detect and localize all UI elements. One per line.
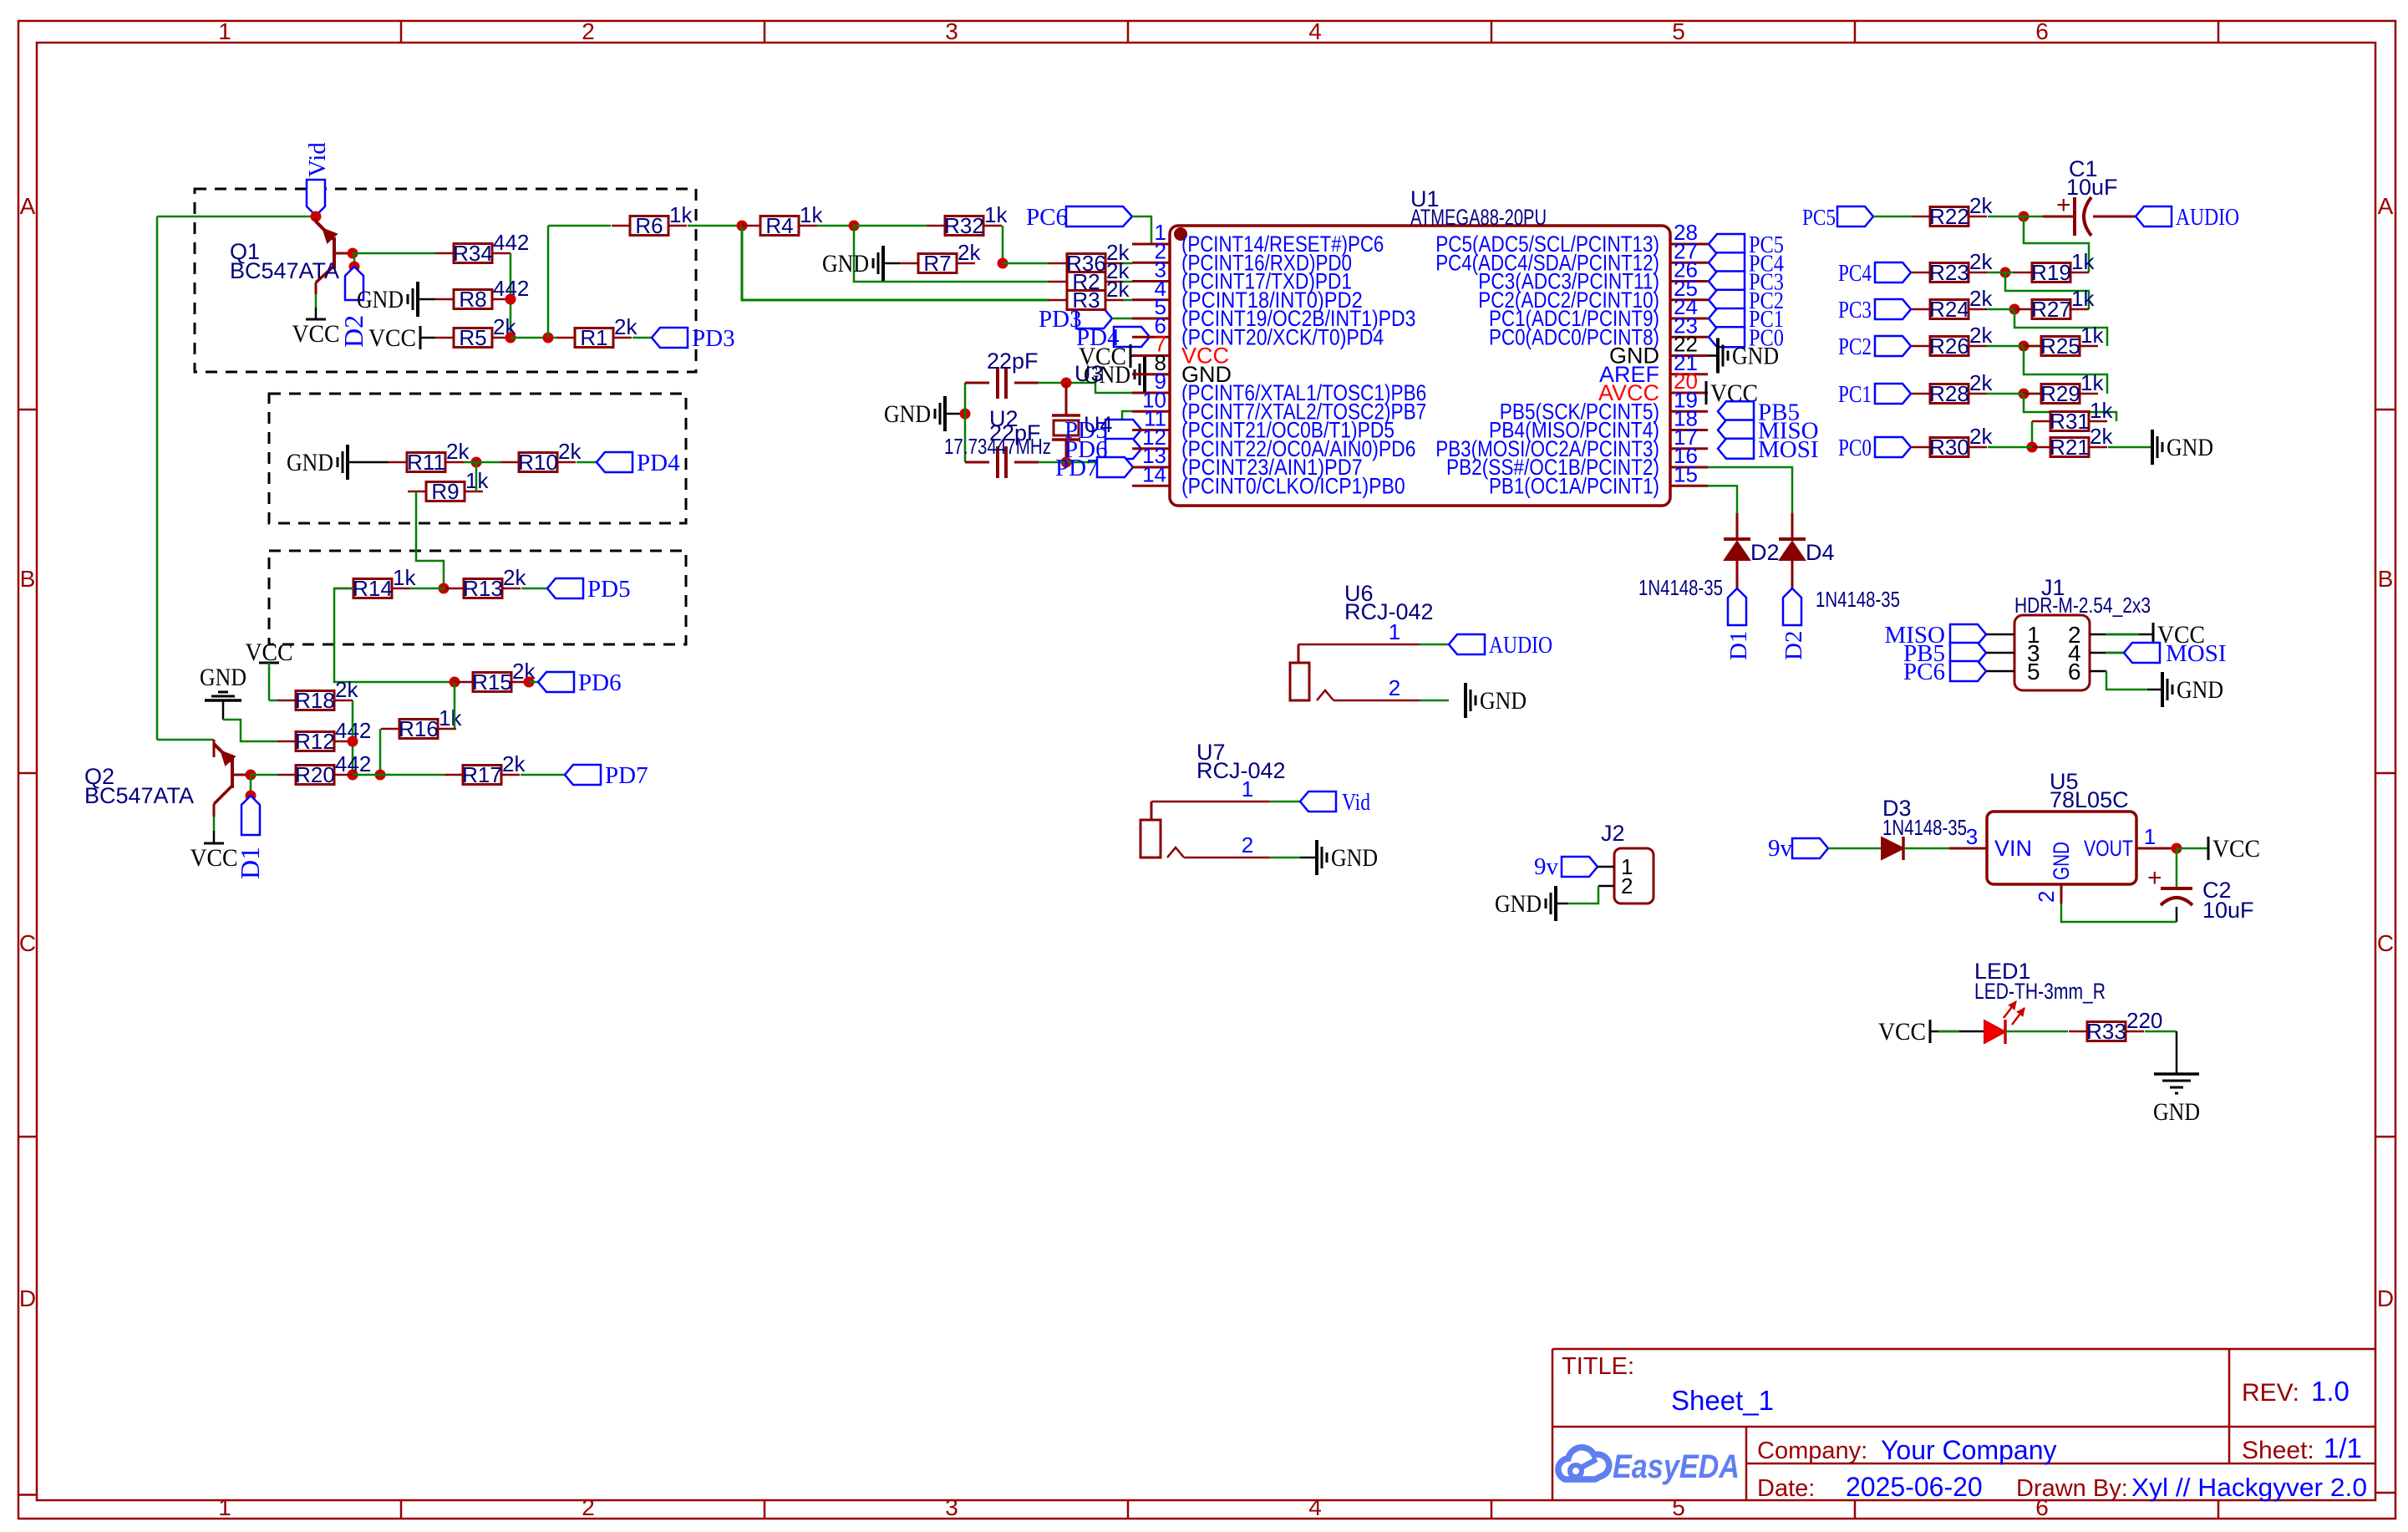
svg-text:2: 2 xyxy=(1242,832,1253,858)
svg-text:R28: R28 xyxy=(1929,381,1969,406)
resistor R5 xyxy=(435,314,516,350)
port AUDIO at U6 xyxy=(1449,632,1552,659)
svg-text:R6: R6 xyxy=(635,213,663,238)
wire U3 to pin9 xyxy=(1039,383,1132,393)
svg-text:R7: R7 xyxy=(923,251,951,276)
svg-text:R27: R27 xyxy=(2031,297,2071,322)
wire R14 down to R15 row xyxy=(334,588,455,682)
svg-text:1k: 1k xyxy=(439,705,462,730)
svg-text:1k: 1k xyxy=(984,202,1008,227)
power VCC at U5 xyxy=(2177,835,2260,863)
svg-text:D1: D1 xyxy=(235,847,265,879)
svg-text:BC547ATA: BC547ATA xyxy=(84,783,194,808)
svg-text:+: + xyxy=(2147,864,2162,892)
svg-text:GND: GND xyxy=(2177,676,2223,704)
svg-text:B: B xyxy=(20,566,36,592)
svg-text:B: B xyxy=(2378,566,2394,592)
wire left long vertical xyxy=(156,216,159,740)
resistor R20 xyxy=(277,751,371,787)
wire R6 vertical xyxy=(547,226,550,338)
node R28 junction xyxy=(2019,389,2030,400)
svg-text:17.73447MHz: 17.73447MHz xyxy=(944,434,1051,459)
port Vid at U7 xyxy=(1300,789,1370,816)
wire J2 pin2 to GND xyxy=(1568,886,1614,903)
svg-text:A: A xyxy=(2378,193,2394,219)
port PB5 at pin19 xyxy=(1718,399,1800,425)
node R6 junction lower xyxy=(543,333,554,344)
svg-text:5: 5 xyxy=(2027,659,2040,685)
ground GND at J1 pin6 xyxy=(2090,671,2223,707)
ground GND at R11 xyxy=(287,445,389,480)
svg-text:2k: 2k xyxy=(1969,370,1993,395)
port MOSI at pin17 xyxy=(1718,436,1819,463)
svg-text:4: 4 xyxy=(1308,1494,1322,1520)
svg-text:PC1: PC1 xyxy=(1838,381,1872,408)
wire left vertical to Q2 xyxy=(157,739,214,741)
wire D4 to port D2 xyxy=(1791,561,1794,588)
svg-text:1k: 1k xyxy=(669,202,693,227)
capacitor C1 10uF xyxy=(2043,156,2136,236)
svg-text:2: 2 xyxy=(1389,675,1400,700)
wire R22 to C1 xyxy=(1988,216,2043,218)
svg-text:10uF: 10uF xyxy=(2202,898,2254,923)
svg-text:9v: 9v xyxy=(1768,835,1793,862)
svg-text:GND: GND xyxy=(2049,842,2074,880)
node C1 junction xyxy=(2019,211,2030,222)
resistor R23 xyxy=(1912,249,1993,285)
svg-text:PC4: PC4 xyxy=(1838,260,1872,287)
svg-text:2k: 2k xyxy=(1969,193,1993,218)
capacitor U2 22pF xyxy=(944,406,1051,478)
node R20 junction right xyxy=(348,770,358,781)
wire Q1 base to R34 xyxy=(353,252,435,255)
svg-text:2k: 2k xyxy=(614,314,638,339)
resistor R36 xyxy=(1049,240,1130,276)
svg-text:1: 1 xyxy=(218,1494,231,1520)
svg-text:PD7: PD7 xyxy=(1055,455,1099,481)
svg-text:Xyl // Hackgyver 2.0: Xyl // Hackgyver 2.0 xyxy=(2131,1473,2367,1502)
wire R6 row xyxy=(548,225,611,227)
port MISO at pin18 xyxy=(1718,418,1819,445)
rev text xyxy=(2242,1376,2350,1407)
port PC3 right xyxy=(1838,297,1911,323)
resistor R22 xyxy=(1912,193,1993,229)
svg-text:PD7: PD7 xyxy=(605,762,648,789)
port D2 below D4 xyxy=(1781,588,1807,660)
wire U6 pin2 to GND xyxy=(1334,675,1449,700)
ground GND at pin22 xyxy=(1708,338,1779,374)
svg-text:R8: R8 xyxy=(459,287,486,312)
svg-text:VCC: VCC xyxy=(368,324,416,352)
node R12 junction xyxy=(348,736,358,747)
ground GND at J2 xyxy=(1495,886,1568,921)
svg-text:Your Company: Your Company xyxy=(1881,1435,2057,1465)
resistor R14 xyxy=(335,565,416,601)
dashed box PD4 divider xyxy=(269,394,686,523)
power VCC at LED1 xyxy=(1878,1018,1984,1046)
wire R14 to R13 xyxy=(410,588,445,590)
port PD7 in box xyxy=(565,762,648,789)
resistor R1 xyxy=(556,314,638,350)
svg-text:D2: D2 xyxy=(338,315,368,348)
svg-text:Sheet:: Sheet: xyxy=(2242,1437,2314,1464)
svg-text:1N4148-35: 1N4148-35 xyxy=(1638,575,1723,600)
crystal U4 17.73447MHz xyxy=(1052,383,1080,462)
svg-text:(PCINT0/CLKO/ICP1)PB0: (PCINT0/CLKO/ICP1)PB0 xyxy=(1181,473,1405,498)
svg-text:REV:: REV: xyxy=(2242,1379,2299,1407)
port MISO at J1 pin1 xyxy=(1884,622,2014,649)
svg-text:AUDIO: AUDIO xyxy=(2176,204,2239,231)
svg-text:442: 442 xyxy=(335,751,371,776)
svg-text:2k: 2k xyxy=(1969,286,1993,311)
svg-text:R13: R13 xyxy=(463,576,503,601)
svg-text:D2: D2 xyxy=(1781,631,1807,660)
IC U1 pin 22 GND xyxy=(1609,332,1708,369)
ground GND at U6 xyxy=(1466,683,1527,718)
svg-text:VCC: VCC xyxy=(292,320,340,348)
svg-text:R29: R29 xyxy=(2040,381,2080,406)
svg-text:GND: GND xyxy=(1495,890,1542,918)
svg-text:2k: 2k xyxy=(502,751,526,776)
wire R33 to GND xyxy=(2145,1031,2177,1074)
node U4 bottom junction xyxy=(1061,457,1072,468)
svg-text:LED-TH-3mm_R: LED-TH-3mm_R xyxy=(1974,979,2106,1004)
wire PC5 to R22 xyxy=(1873,216,1912,218)
power VCC at R5 xyxy=(368,324,435,352)
wire R30 to R21 xyxy=(1988,446,2032,449)
EasyEDA logo xyxy=(1558,1448,1740,1485)
date text xyxy=(1757,1472,1983,1502)
port PC1 right xyxy=(1838,381,1911,408)
svg-text:22pF: 22pF xyxy=(987,349,1039,374)
IC U1 pin 3 (PCINT17/TXD)PD1 xyxy=(1132,257,1352,294)
wire U4 to pin10 xyxy=(1039,411,1132,462)
svg-text:D: D xyxy=(19,1285,36,1311)
svg-text:R17: R17 xyxy=(462,762,502,787)
svg-text:GND: GND xyxy=(200,664,246,691)
svg-text:1k: 1k xyxy=(2090,398,2113,423)
resistor R8 xyxy=(435,276,529,312)
svg-text:EasyEDA: EasyEDA xyxy=(1613,1448,1740,1485)
port PC2 right xyxy=(1838,333,1911,360)
svg-text:2k: 2k xyxy=(2090,424,2113,449)
svg-text:R18: R18 xyxy=(295,688,335,713)
node R24 junction xyxy=(2009,304,2020,315)
wire U7 pin2 to GND xyxy=(1184,832,1317,858)
port PC4 at pin 27 xyxy=(1709,250,1784,277)
svg-text:ATMEGA88-20PU: ATMEGA88-20PU xyxy=(1410,205,1547,230)
port D2 at Q1 xyxy=(338,253,368,348)
svg-text:1k: 1k xyxy=(2080,370,2104,395)
svg-text:78L05C: 78L05C xyxy=(2050,787,2129,812)
resistor R11 xyxy=(389,439,470,475)
svg-text:6: 6 xyxy=(2035,18,2049,44)
svg-text:D: D xyxy=(2377,1285,2394,1311)
port PD4 in box xyxy=(597,450,680,476)
IC U1 ATMEGA88-20PU body xyxy=(1170,186,1670,506)
ground GND at crystal xyxy=(884,396,965,431)
svg-text:PC5: PC5 xyxy=(1802,205,1836,230)
power VCC at Q2 xyxy=(191,817,238,872)
svg-text:4: 4 xyxy=(1308,18,1322,44)
svg-text:1N4148-35: 1N4148-35 xyxy=(1816,587,1900,612)
connector J2 xyxy=(1601,821,1654,903)
resistor R16 xyxy=(381,705,462,741)
svg-text:J2: J2 xyxy=(1601,821,1625,846)
wire R26 junction to R29 xyxy=(2024,346,2107,394)
port Vid xyxy=(304,142,331,216)
svg-text:5: 5 xyxy=(1672,1494,1685,1520)
port 9v at D3 xyxy=(1768,835,1881,862)
ground GND at R21 xyxy=(2152,430,2213,465)
node VOUT junction xyxy=(2172,843,2182,854)
svg-text:PC2: PC2 xyxy=(1838,333,1872,360)
wire Q2 base to R20 xyxy=(251,774,277,776)
svg-text:2k: 2k xyxy=(1106,277,1130,302)
svg-text:VCC: VCC xyxy=(1878,1018,1926,1046)
ground GND at pin8 xyxy=(1084,357,1170,392)
svg-text:C: C xyxy=(2377,930,2394,956)
svg-text:VOUT: VOUT xyxy=(2084,836,2133,861)
svg-text:MOSI: MOSI xyxy=(2166,640,2227,667)
wire R1 to PD3 xyxy=(632,337,652,339)
IC U1 pin 18 PB4(MISO/PCINT4) xyxy=(1489,406,1708,443)
svg-text:6: 6 xyxy=(2068,659,2081,685)
node R4 junction xyxy=(737,221,748,232)
node R32 junction xyxy=(849,221,860,232)
wire crystal left vertical xyxy=(964,383,967,462)
sheet text xyxy=(2242,1433,2362,1464)
port PD6 at pin12 xyxy=(1064,436,1141,463)
resistor R19 xyxy=(2014,249,2095,285)
ground GND at U7 xyxy=(1317,840,1378,875)
wire pin15 to D2 xyxy=(1708,486,1737,539)
svg-text:2k: 2k xyxy=(1969,424,1993,449)
title text xyxy=(1562,1353,1774,1416)
wire R4 to R32 xyxy=(854,225,927,227)
node R23 junction xyxy=(2000,267,2011,278)
resistor R10 xyxy=(500,439,582,475)
svg-text:R5: R5 xyxy=(459,325,486,350)
port PD3 in box xyxy=(652,325,735,352)
LED LED1 LED-TH-3mm_R xyxy=(1974,959,2106,1044)
svg-text:R25: R25 xyxy=(2040,333,2080,359)
IC U1 pin 4 (PCINT18/INT0)PD2 xyxy=(1132,276,1363,313)
power VCC at pin20 xyxy=(1706,379,1758,407)
node R11 junction xyxy=(471,457,482,468)
wire R2 to pin3 xyxy=(1123,281,1132,283)
wire R18 R12 R20 vertical xyxy=(352,700,354,775)
port PD7 at pin13 xyxy=(1055,455,1133,481)
svg-text:D2: D2 xyxy=(1750,540,1780,565)
svg-text:GND: GND xyxy=(287,449,333,476)
resistor R27 xyxy=(2014,286,2095,322)
company text xyxy=(1757,1435,2057,1465)
wire D3 to VIN xyxy=(1905,824,1978,849)
IC U1 pin 2 (PCINT16/RXD)PD0 xyxy=(1132,238,1352,275)
svg-text:GND: GND xyxy=(2153,1098,2200,1126)
diode D3 1N4148-35 xyxy=(1882,796,1967,860)
IC U1 pin 23 PC0(ADC0/PCINT8) xyxy=(1489,313,1708,349)
power VCC at R18 xyxy=(246,639,293,700)
IC U1 pin 28 PC5(ADC5/SCL/PCINT13) xyxy=(1435,220,1708,257)
svg-text:PB1(OC1A/PCINT1): PB1(OC1A/PCINT1) xyxy=(1489,473,1659,498)
resistor R2 xyxy=(1049,258,1130,294)
svg-text:R1: R1 xyxy=(580,325,607,350)
jack U7 RCJ-042 xyxy=(1140,740,1286,858)
svg-text:Date:: Date: xyxy=(1757,1475,1815,1502)
svg-text:2025-06-20: 2025-06-20 xyxy=(1846,1472,1983,1502)
port PC5 at pin 28 xyxy=(1709,232,1784,258)
port 9v at J2 xyxy=(1534,853,1614,880)
svg-text:R22: R22 xyxy=(1929,204,1969,229)
svg-text:1: 1 xyxy=(218,18,231,44)
connector J1 HDR-M-2.54_2x3 xyxy=(2014,575,2151,690)
svg-text:MOSI: MOSI xyxy=(1758,436,1819,463)
resistor R26 xyxy=(1912,323,1993,359)
svg-text:14: 14 xyxy=(1142,461,1166,486)
svg-text:PC3: PC3 xyxy=(1838,297,1872,323)
diode D4 1N4148-35 xyxy=(1779,539,1900,612)
wire R13 to PD5 xyxy=(521,588,547,590)
svg-text:VCC: VCC xyxy=(191,844,238,872)
svg-text:15: 15 xyxy=(1674,461,1698,486)
wire R10 to PD4 xyxy=(577,461,597,464)
svg-text:R23: R23 xyxy=(1929,260,1969,285)
svg-text:GND: GND xyxy=(1732,343,1779,370)
wire R17 to PD7 xyxy=(521,774,565,776)
port PC6 at J1 pin5 xyxy=(1903,659,2014,685)
transistor Q2 BC547ATA xyxy=(84,740,251,817)
svg-text:1: 1 xyxy=(1389,619,1400,644)
svg-text:Vid: Vid xyxy=(1342,789,1370,816)
resistor R12 xyxy=(277,718,371,754)
svg-text:R21: R21 xyxy=(2050,435,2090,460)
resistor R25 xyxy=(2023,323,2104,359)
wire junction down to PD2 row xyxy=(742,226,1049,300)
svg-text:3: 3 xyxy=(945,1494,958,1520)
svg-text:VCC: VCC xyxy=(2212,835,2260,863)
wire junction down to PD1 row xyxy=(854,226,1049,282)
wire U5 GND to C2 xyxy=(2061,903,2177,922)
IC U1 pin 24 PC1(ADC1/PCINT9) xyxy=(1489,294,1708,331)
node R16 junction xyxy=(375,770,386,781)
svg-text:2k: 2k xyxy=(1969,323,1993,348)
wire R26 to junction xyxy=(1987,345,2041,348)
svg-text:R31: R31 xyxy=(2050,409,2090,434)
svg-text:442: 442 xyxy=(493,230,529,255)
port PD6 in box xyxy=(538,669,622,696)
port PC3 at pin 26 xyxy=(1709,269,1784,296)
wire R3 to pin4 xyxy=(1123,299,1132,302)
svg-text:VIN: VIN xyxy=(1994,836,2032,861)
diode D2 1N4148-35 xyxy=(1638,539,1780,600)
svg-text:R19: R19 xyxy=(2031,260,2071,285)
svg-text:PC6: PC6 xyxy=(1026,204,1068,231)
resistor R15 xyxy=(455,659,536,695)
svg-text:PD3: PD3 xyxy=(692,325,735,352)
IC U1 pin 21 AREF xyxy=(1599,350,1708,387)
svg-text:2k: 2k xyxy=(958,240,981,265)
wire R23 junction to R19 xyxy=(1987,272,2014,274)
svg-text:1k: 1k xyxy=(2071,286,2095,311)
svg-text:Company:: Company: xyxy=(1757,1438,1867,1464)
wire U6 pin1 to AUDIO xyxy=(1298,619,1449,644)
wire R5 to R1 xyxy=(511,337,557,339)
node Q2 base junction xyxy=(246,770,257,781)
svg-text:2k: 2k xyxy=(1969,249,1993,274)
wire D2 to port D1 xyxy=(1736,561,1739,588)
svg-text:GND: GND xyxy=(1480,687,1527,715)
svg-text:PD5: PD5 xyxy=(587,576,631,603)
wire GND to R12 xyxy=(223,720,277,741)
node Q1 base junction xyxy=(348,248,358,259)
power VCC at pin7 xyxy=(1079,343,1132,370)
port PC6 at pin1 xyxy=(1026,204,1151,244)
svg-text:R20: R20 xyxy=(295,762,335,787)
port PC4 right xyxy=(1838,260,1911,287)
svg-text:R11: R11 xyxy=(407,450,445,475)
port D1 at Q2 xyxy=(235,775,265,879)
regulator U5 78L05C xyxy=(1949,769,2177,903)
svg-text:R10: R10 xyxy=(518,450,558,475)
IC U1 pin 10 (PCINT7/XTAL2/TOSC2)PB7 xyxy=(1132,387,1426,424)
wire R32 down xyxy=(1002,226,1004,263)
resistor R31 xyxy=(2032,398,2113,434)
svg-text:TITLE:: TITLE: xyxy=(1562,1353,1634,1380)
wire R21 to GND xyxy=(2108,446,2152,449)
svg-text:3: 3 xyxy=(1966,824,1978,849)
wire R36 to pin2 xyxy=(1123,262,1132,265)
wire VCC to R18 xyxy=(269,700,277,702)
port PC2 at pin 25 xyxy=(1709,288,1784,314)
svg-text:R14: R14 xyxy=(353,576,393,601)
svg-text:2k: 2k xyxy=(335,677,358,702)
IC U1 pin 13 (PCINT23/AIN1)PD7 xyxy=(1132,443,1363,480)
IC U1 pin 17 PB3(MOSI/OC2A/PCINT3) xyxy=(1435,425,1708,461)
wire pin16 to D4 xyxy=(1708,467,1792,539)
crystal U4 label xyxy=(1084,412,1113,437)
IC U1 pin 7 VCC xyxy=(1132,332,1229,369)
svg-text:AUDIO: AUDIO xyxy=(1489,632,1552,659)
wire R7 row to R36 xyxy=(1003,262,1049,265)
svg-text:5: 5 xyxy=(1672,18,1685,44)
port MOSI at J1 pin4 xyxy=(2090,640,2227,667)
resistor R21 xyxy=(2032,424,2113,460)
port PC0 at pin 23 xyxy=(1709,324,1784,351)
port PC1 at pin 24 xyxy=(1709,306,1784,333)
svg-text:2: 2 xyxy=(2034,891,2059,903)
resistor R30 xyxy=(1912,424,1993,460)
node R15 out junction xyxy=(524,677,535,688)
resistor R33 xyxy=(2069,1008,2162,1044)
IC U1 pin 15 PB1(OC1A/PCINT1) xyxy=(1489,461,1708,498)
node Vid junction xyxy=(311,211,322,222)
jack U6 RCJ-042 xyxy=(1290,581,1434,700)
resistor R17 xyxy=(445,751,526,787)
transistor Q1 BC547ATA xyxy=(230,218,353,294)
svg-text:GND: GND xyxy=(357,286,404,313)
drawnby text xyxy=(2016,1473,2367,1502)
svg-text:Vid: Vid xyxy=(304,142,331,177)
svg-text:C: C xyxy=(19,930,36,956)
resistor R4 xyxy=(742,202,823,238)
IC U1 pin 6 (PCINT20/XCK/T0)PD4 xyxy=(1132,313,1384,349)
node R7 junction xyxy=(998,258,1008,269)
svg-text:2: 2 xyxy=(582,1494,595,1520)
wire R9 down to R14 row xyxy=(416,491,444,588)
IC U1 pin 5 (PCINT19/OC2B/INT1)PD3 xyxy=(1132,294,1416,331)
